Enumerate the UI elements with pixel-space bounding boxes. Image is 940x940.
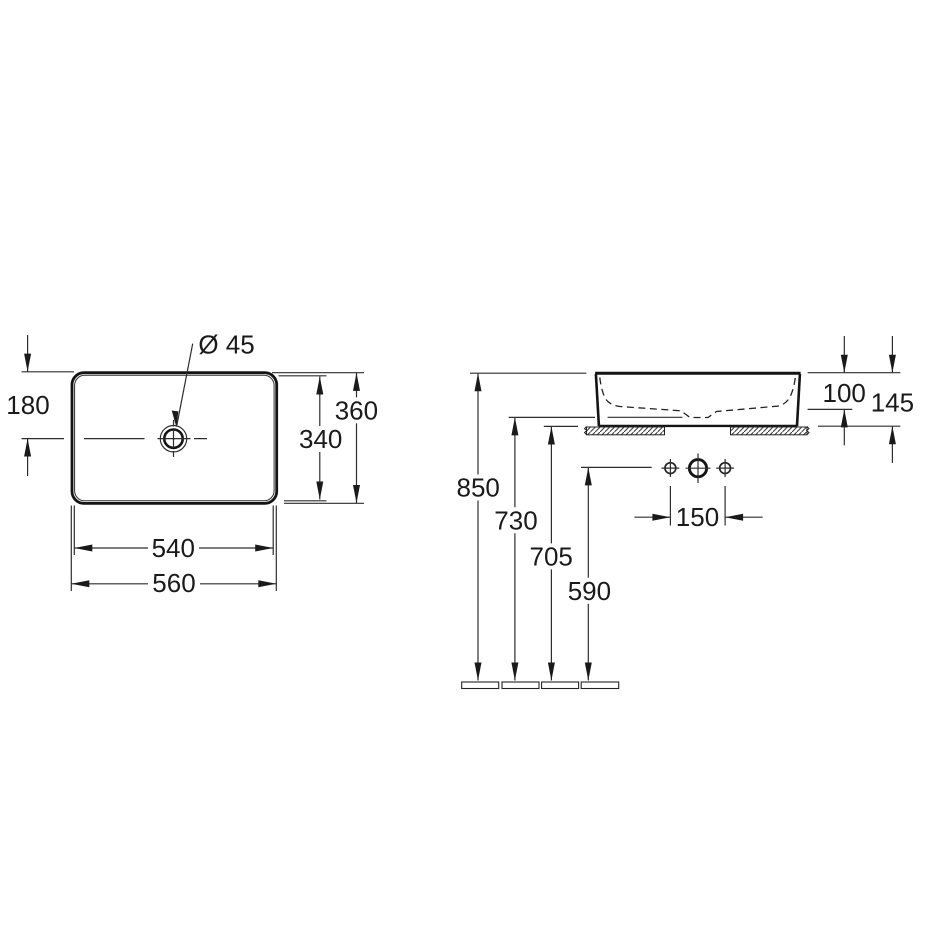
basin plan view outer outline — [72, 373, 277, 504]
basin elevation right wall — [797, 374, 800, 426]
dimension 180 line top segment — [27, 335, 29, 372]
extension line 145 bottom — [818, 425, 900, 427]
counter break mark left — [585, 427, 587, 435]
extension line 100 bottom — [808, 408, 853, 410]
svg-text:150: 150 — [676, 502, 719, 532]
counter hatched strip left — [587, 427, 665, 435]
svg-text:145: 145 — [871, 387, 914, 417]
basin plan view inner rim contour — [75, 375, 275, 501]
dimension 590 line — [587, 467, 589, 680]
counter break mark right — [807, 427, 809, 435]
center line left segment — [84, 438, 145, 440]
dimension 590 top arrow — [585, 467, 592, 485]
dimension 150 left arrow — [652, 514, 670, 521]
extension line bottom for 340 — [284, 500, 327, 502]
svg-text:Ø 45: Ø 45 — [198, 329, 254, 359]
tap hole inner circle (plan) — [164, 430, 182, 448]
dimension 100 bottom arrow — [841, 409, 848, 427]
tap hole large circle (elevation) — [689, 460, 706, 477]
dimension 340 top arrow — [316, 377, 323, 395]
svg-text:360: 360 — [335, 396, 378, 426]
dimension 100 bottom segment — [843, 409, 845, 445]
basin interior solid line — [608, 416, 683, 418]
extension line top for 340 — [279, 375, 327, 377]
dimension 360 bottom arrow — [353, 485, 360, 503]
svg-text:340: 340 — [299, 424, 342, 454]
tap hole center mark — [172, 438, 175, 440]
dimension 180 line bottom segment — [27, 439, 29, 477]
basin interior hidden contour (dashed) — [600, 378, 796, 418]
crosshair large circle — [686, 454, 711, 484]
extension line center-left of plan — [22, 438, 65, 440]
basin elevation bottom edge — [598, 425, 797, 427]
crosshair small left circle — [662, 459, 680, 477]
halo for 590 — [564, 578, 614, 604]
svg-text:540: 540 — [152, 533, 195, 563]
dimension 560 left arrow — [71, 580, 89, 587]
halo for 540 — [148, 535, 199, 561]
extension line top for 360 — [272, 372, 364, 374]
tap hole small right circle (elevation) — [720, 463, 731, 474]
dimension 360 top arrow — [353, 373, 360, 391]
svg-text:180: 180 — [6, 390, 49, 420]
center line crosshair horizontal — [158, 438, 208, 440]
floor bar 1 — [462, 682, 499, 689]
extension line 560 left — [70, 506, 72, 592]
extension line 540 right — [272, 506, 274, 556]
crosshair small right circle — [716, 459, 734, 477]
dimension 540 right arrow — [255, 545, 273, 552]
dimension 705 top arrow — [548, 427, 555, 445]
dimension 100 top segment — [843, 336, 845, 373]
svg-text:850: 850 — [457, 473, 500, 503]
dimension 145 top segment — [891, 336, 893, 373]
dimension 850 top arrow — [475, 373, 482, 391]
svg-text:100: 100 — [823, 378, 866, 408]
extension line bottom for 360 — [284, 502, 364, 504]
dimension 180 top arrow — [24, 354, 31, 372]
center line crosshair vertical — [173, 420, 175, 457]
floor bar 4 — [581, 682, 619, 689]
extension line 150 left — [669, 486, 671, 526]
dimension 145 bottom segment — [891, 426, 893, 463]
dimension 560 line — [71, 583, 276, 585]
dimension 850 bottom arrow — [475, 663, 482, 681]
counter hatched strip right — [731, 427, 808, 435]
dimension 705 line — [550, 427, 552, 681]
leader line for tap hole diameter — [177, 344, 193, 425]
extension line top-left of plan — [22, 371, 75, 373]
dimension 705 bottom arrow — [548, 663, 555, 681]
svg-text:560: 560 — [152, 568, 195, 598]
dimension 145 bottom arrow — [889, 426, 896, 444]
extension line 560 right — [275, 506, 277, 592]
extension line 705 — [544, 425, 578, 427]
dimension 150 right arrow — [725, 514, 743, 521]
extension line 590 — [581, 466, 652, 468]
dimension 145 top arrow — [889, 355, 896, 373]
basin elevation left wall — [596, 374, 599, 426]
dimension 540 line — [74, 547, 273, 549]
dimension 540 left arrow — [74, 545, 92, 552]
floor bar 2 — [502, 682, 539, 689]
extension line 150 right — [724, 486, 726, 526]
tap hole outer circle (plan) — [160, 426, 186, 452]
extension line 850 top — [470, 372, 586, 374]
svg-text:590: 590 — [568, 576, 611, 606]
svg-text:705: 705 — [530, 542, 573, 572]
leader arrow — [172, 411, 179, 428]
dimension 360 line — [356, 373, 358, 503]
dimension 150 left line — [634, 516, 670, 518]
tap hole small left circle (elevation) — [665, 463, 676, 474]
floor bar 3 — [542, 682, 579, 689]
dimension 730 top arrow — [511, 417, 518, 435]
dimension 590 bottom arrow — [585, 663, 592, 681]
extension line 100 and 145 top — [808, 372, 901, 374]
halo for 705 — [526, 543, 576, 569]
dimension 730 line — [514, 417, 516, 680]
dimension 850 line — [477, 373, 479, 680]
basin elevation top edge — [595, 372, 801, 375]
svg-text:730: 730 — [494, 505, 537, 535]
dimension 340 bottom arrow — [316, 482, 323, 500]
dimension 730 bottom arrow — [511, 663, 518, 681]
halo for 850 — [455, 475, 505, 501]
dimension 340 line — [319, 377, 321, 500]
dimension 560 right arrow — [258, 580, 276, 587]
halo for 560 — [148, 571, 200, 597]
extension line 730 — [509, 416, 595, 418]
halo for 360 — [332, 397, 381, 423]
halo for 340 — [296, 426, 345, 452]
dimension 180 bottom arrow — [24, 439, 31, 457]
dimension 100 top arrow — [841, 355, 848, 373]
halo for 730 — [491, 507, 541, 533]
dimension 150 right line — [725, 516, 763, 518]
extension line 540 left — [73, 506, 75, 556]
